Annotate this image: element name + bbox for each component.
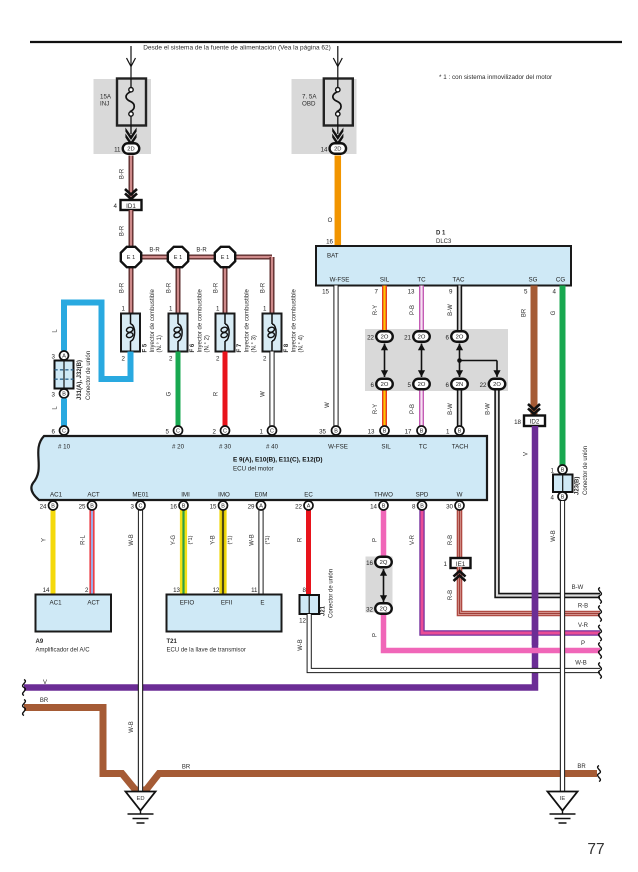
- wire O fuse OBD to DLC3 BAT: [335, 156, 342, 247]
- svg-text:BR: BR: [522, 308, 528, 317]
- wire W-B ME01 over rails (overpass): [138, 660, 143, 792]
- wire W-B J23 over rails (overpass): [560, 560, 565, 792]
- svg-text:Inyector de combustible: Inyector de combustible: [292, 288, 298, 352]
- svg-text:B: B: [382, 504, 386, 510]
- fuse 15A INJ: [117, 79, 146, 135]
- wire W injector F8 to ECU #40: [269, 352, 274, 427]
- svg-text:A: A: [62, 354, 66, 360]
- svg-text:1: 1: [216, 306, 220, 313]
- svg-text:25: 25: [79, 504, 86, 511]
- svg-text:E 1: E 1: [221, 255, 229, 261]
- svg-text:9: 9: [449, 289, 453, 296]
- wire W W-FSE DLC3 to ECU: [333, 286, 338, 427]
- svg-text:# 40: # 40: [266, 444, 279, 451]
- svg-text:(*1): (*1): [228, 535, 234, 544]
- svg-text:SG: SG: [529, 277, 538, 284]
- wire Y-G IMI to T21: [180, 510, 187, 595]
- junction connector J31(A), J32(B): [55, 361, 74, 389]
- continuation squiggle V: [23, 680, 26, 696]
- svg-text:P: P: [373, 538, 379, 542]
- svg-text:7: 7: [375, 289, 379, 296]
- svg-text:THWO: THWO: [374, 492, 393, 499]
- svg-text:4: 4: [114, 203, 118, 210]
- wire P THWO upper: [381, 510, 387, 557]
- svg-text:IMI: IMI: [181, 492, 190, 499]
- svg-text:C: C: [176, 429, 180, 435]
- connector circle B: [332, 426, 341, 435]
- svg-text:B-R: B-R: [196, 248, 207, 254]
- svg-text:SPD: SPD: [416, 492, 429, 499]
- svg-text:21: 21: [404, 335, 411, 342]
- connector oval 2Q pin 16: [375, 557, 392, 568]
- svg-text:B: B: [90, 504, 94, 510]
- svg-text:ME01: ME01: [132, 492, 149, 499]
- svg-text:2: 2: [263, 356, 267, 363]
- svg-text:ED: ED: [136, 796, 144, 802]
- svg-text:R-B: R-B: [448, 590, 454, 600]
- svg-text:24: 24: [40, 504, 47, 511]
- svg-text:B: B: [561, 468, 565, 474]
- svg-text:32: 32: [366, 607, 373, 614]
- svg-text:Inyector de combustible: Inyector de combustible: [245, 288, 251, 352]
- connector oval 2O pin 5: [413, 379, 430, 390]
- svg-text:W-B: W-B: [250, 534, 256, 546]
- svg-text:B-R: B-R: [120, 225, 126, 236]
- svg-text:Inyector de combustible: Inyector de combustible: [150, 288, 156, 352]
- svg-text:TC: TC: [417, 277, 426, 284]
- svg-text:F 7: F 7: [237, 343, 243, 352]
- svg-text:11: 11: [251, 587, 258, 594]
- wire B-R to injector F8: [270, 257, 275, 315]
- svg-text:ECU del motor: ECU del motor: [233, 466, 274, 473]
- T21 ECU de la llave de transmisor box: [167, 595, 282, 632]
- svg-text:16: 16: [366, 560, 373, 567]
- wire W-B J23 to ground IE: [560, 501, 565, 792]
- svg-text:1: 1: [260, 429, 264, 436]
- svg-text:ID2: ID2: [530, 419, 540, 426]
- svg-text:* 1 : con sistema inmovilizado: * 1 : con sistema inmovilizador del moto…: [439, 74, 552, 81]
- injector F8: [263, 314, 282, 352]
- svg-text:Y: Y: [42, 538, 48, 542]
- svg-text:6: 6: [446, 382, 450, 389]
- svg-text:Amplificador del A/C: Amplificador del A/C: [36, 648, 91, 654]
- connector circle C: [268, 426, 277, 435]
- svg-text:W-B: W-B: [575, 661, 587, 667]
- svg-text:W: W: [325, 402, 331, 408]
- wire P-B TC upper: [419, 286, 424, 331]
- svg-text:2: 2: [169, 356, 173, 363]
- wire V ID2 down to bottom rail: [24, 426, 535, 688]
- svg-text:F 8: F 8: [284, 343, 290, 352]
- svg-text:15: 15: [322, 289, 329, 296]
- svg-text:B: B: [383, 429, 387, 435]
- arrow branch into 2O pin 22: [493, 361, 500, 378]
- connector circle B: [455, 426, 464, 435]
- svg-text:B: B: [334, 429, 338, 435]
- svg-text:B: B: [221, 504, 225, 510]
- svg-text:W-B: W-B: [298, 639, 304, 651]
- connector circle B: [380, 426, 389, 435]
- svg-text:# 20: # 20: [172, 444, 185, 451]
- svg-text:E 9(A), E10(B), E11(C), E12(D): E 9(A), E10(B), E11(C), E12(D): [233, 457, 323, 464]
- svg-text:13: 13: [408, 289, 415, 296]
- ground ED: [126, 792, 156, 824]
- svg-text:L: L: [53, 406, 59, 410]
- svg-text:IE1: IE1: [456, 561, 466, 568]
- arrow junction to 2N: [456, 361, 463, 378]
- svg-text:F 6: F 6: [190, 343, 196, 352]
- svg-text:3: 3: [52, 354, 56, 361]
- svg-text:W-FSE: W-FSE: [330, 277, 350, 284]
- svg-text:C: C: [270, 429, 274, 435]
- wire B-R ID1 to node E1: [129, 210, 134, 248]
- svg-text:4: 4: [553, 289, 557, 296]
- svg-text:G: G: [167, 391, 173, 396]
- svg-text:13: 13: [173, 587, 180, 594]
- continuation squiggle P: [599, 643, 602, 659]
- svg-text:2: 2: [216, 356, 220, 363]
- svg-text:A: A: [307, 504, 311, 510]
- continuation squiggle BR: [598, 766, 601, 782]
- arrow 2O to junction: [456, 344, 463, 361]
- continuation squiggle B-W: [599, 588, 602, 604]
- svg-text:B-R: B-R: [120, 168, 126, 179]
- svg-text:EC: EC: [304, 492, 313, 499]
- svg-text:6: 6: [371, 382, 375, 389]
- svg-text:2Q: 2Q: [380, 607, 388, 613]
- svg-text:R-L: R-L: [81, 535, 87, 545]
- wire Y-B IMO to T21: [219, 510, 226, 595]
- svg-text:E 1: E 1: [127, 255, 135, 261]
- node E1 (1): [121, 247, 141, 267]
- svg-text:(N.° 3): (N.° 3): [252, 335, 258, 352]
- svg-text:2: 2: [85, 587, 89, 594]
- svg-text:1: 1: [169, 306, 173, 313]
- connector oval 2O pin 22: [489, 379, 506, 390]
- svg-text:ID1: ID1: [126, 203, 136, 210]
- wire B-R node E1 branch horizontal: [131, 255, 272, 260]
- svg-text:OBD: OBD: [302, 101, 316, 108]
- svg-text:B: B: [458, 504, 462, 510]
- svg-text:22: 22: [480, 382, 487, 389]
- svg-text:C: C: [139, 504, 143, 510]
- wire B-W TAC lower: [457, 390, 462, 427]
- junction connector J23(B): [553, 475, 573, 493]
- svg-text:8: 8: [412, 504, 416, 511]
- svg-text:CG: CG: [556, 277, 565, 284]
- connector circle A: [60, 351, 69, 360]
- wire R EC to J21: [306, 510, 311, 595]
- injector F6: [169, 314, 188, 352]
- svg-text:B-W: B-W: [572, 585, 584, 591]
- connector oval 2D pin 14: [330, 143, 347, 154]
- svg-text:F 5: F 5: [143, 343, 149, 352]
- svg-text:11: 11: [114, 147, 121, 154]
- connector circle B: [558, 465, 567, 474]
- connector circle A: [257, 501, 266, 510]
- svg-text:R: R: [298, 537, 304, 542]
- injector F5: [121, 314, 140, 352]
- svg-text:G: G: [551, 310, 557, 315]
- svg-text:AC1: AC1: [49, 600, 62, 607]
- wire R-L ACT to A9: [90, 510, 95, 595]
- svg-text:1: 1: [263, 306, 267, 313]
- junction box ID2: [524, 416, 545, 427]
- svg-text:(N.° 1): (N.° 1): [157, 335, 163, 352]
- svg-text:TAC: TAC: [453, 277, 465, 284]
- wire B-R fuse INJ to ID1: [129, 156, 134, 201]
- svg-text:2D: 2D: [334, 147, 341, 153]
- svg-text:(*1): (*1): [265, 535, 271, 544]
- svg-text:J23(B): J23(B): [575, 477, 581, 495]
- svg-text:2: 2: [213, 429, 217, 436]
- svg-text:EFIO: EFIO: [180, 600, 195, 607]
- feed arrow into fuse INJ: [127, 46, 136, 79]
- wire W-B ME01 to ground ED: [138, 510, 143, 792]
- arrows between 2Q connectors: [380, 569, 387, 602]
- node E1 (3): [215, 247, 235, 267]
- svg-text:14: 14: [321, 147, 328, 154]
- svg-text:35: 35: [319, 429, 326, 436]
- connector oval 2O pin 6: [451, 331, 468, 342]
- svg-text:R-Y: R-Y: [373, 404, 379, 414]
- wire B-R to injector F5: [129, 257, 134, 315]
- svg-text:3: 3: [131, 504, 135, 511]
- svg-text:R-Y: R-Y: [373, 305, 379, 315]
- svg-text:6: 6: [52, 429, 56, 436]
- svg-text:T21: T21: [167, 639, 178, 645]
- connector circle B: [417, 426, 426, 435]
- junction arrows into ID1: [125, 189, 137, 199]
- svg-text:W-FSE: W-FSE: [328, 444, 348, 451]
- gray panel behind 2Q connectors: [366, 557, 393, 613]
- svg-text:# 30: # 30: [219, 444, 232, 451]
- wire B-W from 2O pin22 down and right: [497, 391, 600, 596]
- svg-text:J31(A), J32(B): J31(A), J32(B): [77, 360, 83, 400]
- connector circle A: [304, 501, 313, 510]
- connector circle C: [60, 426, 69, 435]
- connector circle B: [418, 501, 427, 510]
- svg-text:L: L: [53, 329, 59, 333]
- svg-text:# 10: # 10: [58, 444, 71, 451]
- svg-text:(*1): (*1): [188, 535, 194, 544]
- wire P THWO lower: [384, 614, 601, 651]
- svg-text:B-W: B-W: [448, 304, 454, 316]
- svg-text:J21: J21: [321, 605, 327, 616]
- wire R-B IE1 right rail: [460, 567, 601, 614]
- svg-text:E: E: [260, 600, 264, 607]
- svg-text:1: 1: [122, 306, 126, 313]
- wire R-B W to IE1: [457, 510, 463, 558]
- svg-text:12: 12: [213, 587, 220, 594]
- wire B-R to injector F7: [223, 257, 228, 315]
- svg-text:17: 17: [405, 429, 412, 436]
- svg-text:8: 8: [303, 587, 307, 594]
- wire G CG to J23: [560, 286, 566, 466]
- svg-text:77: 77: [587, 841, 604, 858]
- fuse block background (OBD): [292, 79, 357, 154]
- svg-text:22: 22: [295, 504, 302, 511]
- svg-text:DLC3: DLC3: [436, 239, 452, 245]
- junction arrows into IE1: [454, 571, 466, 581]
- svg-text:2O: 2O: [381, 382, 389, 388]
- svg-text:E0M: E0M: [255, 492, 268, 499]
- svg-text:BR: BR: [577, 764, 586, 770]
- svg-text:6: 6: [446, 335, 450, 342]
- continuation squiggle BR: [23, 700, 26, 716]
- connector circle B: [455, 501, 464, 510]
- gray panel behind 2O connectors: [365, 329, 508, 391]
- arrows between 2O connectors: [381, 344, 388, 378]
- svg-text:B-R: B-R: [167, 282, 173, 293]
- wire R-Y SIL upper: [382, 286, 387, 331]
- ECU del motor box: [31, 436, 487, 500]
- svg-text:V: V: [43, 680, 47, 686]
- wire Y AC1 to A9: [51, 510, 56, 595]
- svg-text:Conector de unión: Conector de unión: [86, 351, 92, 400]
- svg-text:P: P: [373, 633, 379, 637]
- junction dot: [457, 358, 462, 363]
- connector oval 2Q pin 32: [375, 603, 392, 614]
- svg-text:C: C: [62, 429, 66, 435]
- wire P-B TC lower: [419, 390, 424, 427]
- svg-text:SIL: SIL: [381, 444, 391, 451]
- svg-text:B: B: [420, 429, 424, 435]
- junction box ID1: [121, 200, 142, 210]
- svg-text:TC: TC: [419, 444, 428, 451]
- svg-text:4: 4: [551, 495, 555, 502]
- svg-text:14: 14: [43, 587, 50, 594]
- connector circle B: [379, 501, 388, 510]
- svg-text:B-R: B-R: [214, 282, 220, 293]
- svg-text:2N: 2N: [456, 382, 463, 388]
- svg-text:B: B: [51, 504, 55, 510]
- svg-text:5: 5: [524, 289, 528, 296]
- svg-text:B-R: B-R: [261, 282, 267, 293]
- svg-text:B: B: [62, 392, 66, 398]
- svg-text:B: B: [420, 504, 424, 510]
- svg-text:2O: 2O: [493, 382, 501, 388]
- svg-text:A: A: [259, 504, 263, 510]
- svg-text:SIL: SIL: [380, 277, 390, 284]
- connector oval 2O pin 6: [376, 379, 393, 390]
- wire G injector F6 to ECU #20: [176, 352, 181, 427]
- injector F7: [216, 314, 235, 352]
- svg-text:16: 16: [170, 504, 177, 511]
- connector circle B: [88, 501, 97, 510]
- svg-text:W: W: [261, 391, 267, 397]
- svg-text:14: 14: [370, 504, 377, 511]
- wire R injector F7 to ECU #30: [223, 352, 228, 427]
- connector circle C: [136, 501, 145, 510]
- connector circle B: [179, 501, 188, 510]
- connector circle B: [60, 389, 69, 398]
- svg-text:C: C: [223, 429, 227, 435]
- continuation squiggle W-B: [599, 663, 602, 679]
- svg-text:1: 1: [446, 429, 450, 436]
- svg-text:W-B: W-B: [551, 530, 557, 542]
- svg-text:B-W: B-W: [448, 403, 454, 415]
- connector oval 2D pin 11: [123, 143, 140, 154]
- svg-text:V: V: [524, 452, 530, 456]
- top rule: [30, 41, 622, 43]
- wire B-W TAC upper: [457, 286, 462, 331]
- connector circle C: [221, 426, 230, 435]
- connector circle B: [558, 492, 567, 501]
- fuse block background (INJ): [94, 79, 152, 154]
- wire BR bottom rail: [24, 708, 597, 791]
- svg-text:13: 13: [368, 429, 375, 436]
- arrow into connector 2D (OBD): [332, 128, 343, 147]
- svg-text:2D: 2D: [127, 147, 134, 153]
- svg-text:22: 22: [367, 335, 374, 342]
- wire R-Y SIL lower: [382, 390, 387, 427]
- svg-text:(N.° 4): (N.° 4): [299, 335, 305, 352]
- svg-text:TACH: TACH: [452, 444, 468, 451]
- svg-text:1: 1: [444, 561, 448, 568]
- svg-text:2O: 2O: [418, 382, 426, 388]
- svg-text:(N.° 2): (N.° 2): [205, 335, 211, 352]
- node E1 (2): [168, 247, 188, 267]
- svg-text:7. 5A: 7. 5A: [302, 94, 317, 101]
- svg-text:3: 3: [52, 392, 56, 399]
- svg-text:W: W: [457, 492, 463, 499]
- svg-text:B: B: [182, 504, 186, 510]
- connector circle C: [174, 426, 183, 435]
- svg-text:R-B: R-B: [578, 604, 588, 610]
- svg-text:2Q: 2Q: [380, 560, 388, 566]
- wire V-R SPD right rail: [422, 510, 600, 633]
- wire L J31 to ECU #10: [61, 399, 67, 427]
- arrow into connector 2D (INJ): [125, 128, 136, 147]
- continuation squiggle R-B: [599, 606, 602, 622]
- fuse 7.5A OBD: [324, 79, 353, 135]
- wire L injector F5 loop to J31: [64, 303, 131, 380]
- svg-text:18: 18: [514, 419, 521, 426]
- svg-text:D 1: D 1: [436, 231, 446, 237]
- svg-text:IMO: IMO: [218, 492, 230, 499]
- wire B-R to injector F6: [176, 257, 181, 315]
- A9 Amplificador del A/C box: [36, 595, 112, 632]
- svg-text:O: O: [328, 218, 333, 224]
- svg-text:BR: BR: [182, 765, 191, 771]
- svg-text:Y-B: Y-B: [211, 535, 217, 544]
- svg-text:IE: IE: [560, 796, 566, 802]
- connector oval 2O pin 21: [413, 331, 430, 342]
- svg-text:ACT: ACT: [87, 492, 100, 499]
- svg-text:16: 16: [326, 239, 333, 246]
- svg-text:R-B: R-B: [448, 535, 454, 545]
- wire W-B E0M to T21: [258, 510, 263, 595]
- svg-text:ECU de la llave de transmisor: ECU de la llave de transmisor: [167, 648, 246, 654]
- connector D1 DLC3: [316, 246, 571, 286]
- feed arrow into fuse OBD: [333, 46, 342, 79]
- svg-text:2O: 2O: [381, 335, 389, 341]
- wire V ID2 vertical (overpass): [532, 580, 539, 645]
- svg-text:Desde el sistema de la fuente: Desde el sistema de la fuente de aliment…: [143, 45, 331, 52]
- arrows between 2O connectors: [418, 344, 425, 378]
- svg-text:2O: 2O: [418, 335, 426, 341]
- ground IE: [548, 792, 578, 824]
- svg-text:BAT: BAT: [327, 253, 339, 260]
- connector circle B: [49, 501, 58, 510]
- svg-text:R: R: [214, 391, 220, 396]
- svg-text:Y-G: Y-G: [171, 535, 177, 545]
- svg-text:30: 30: [446, 504, 453, 511]
- svg-text:15: 15: [210, 504, 217, 511]
- connector circle B: [219, 501, 228, 510]
- svg-text:W-B: W-B: [129, 721, 135, 733]
